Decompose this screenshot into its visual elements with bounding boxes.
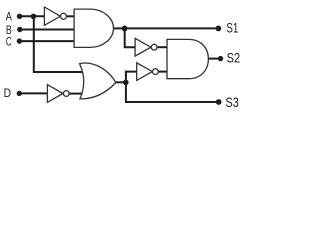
svg-text:S2: S2: [227, 50, 241, 66]
svg-text:C: C: [6, 35, 12, 48]
svg-text:S3: S3: [226, 94, 239, 110]
svg-text:S1: S1: [226, 20, 238, 36]
svg-text:A: A: [6, 11, 12, 24]
svg-text:D: D: [4, 87, 11, 100]
